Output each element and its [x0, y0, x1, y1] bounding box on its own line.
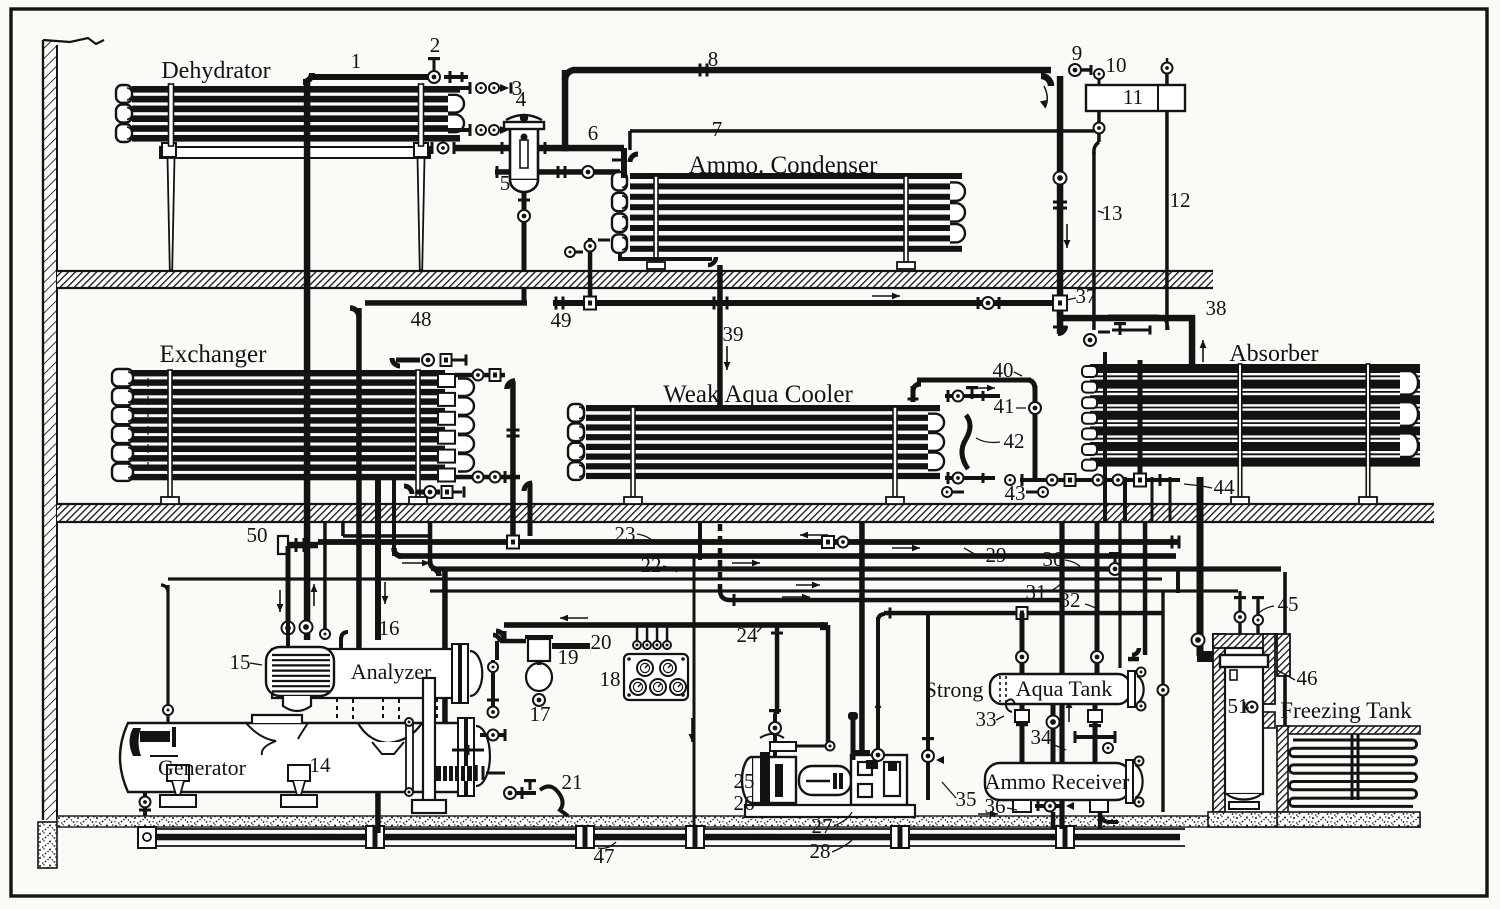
Exchanger right support: [416, 370, 420, 497]
leader 24: [757, 624, 765, 632]
leader 41: [1016, 407, 1026, 409]
svg-text:11: 11: [1123, 85, 1143, 109]
generator left neck: [252, 715, 302, 723]
valve 9: [1069, 64, 1081, 76]
pipe 40: [917, 378, 1031, 383]
ammo receiver right dome: [1126, 760, 1133, 803]
generator steam inlet left: [140, 731, 170, 742]
svg-text:22: 22: [641, 553, 662, 577]
pipe 32 run: [884, 611, 1164, 616]
svg-text:34: 34: [1031, 725, 1053, 749]
valve on downcomer: [1054, 172, 1067, 185]
analyzer shell: [272, 649, 455, 698]
arrow on 23 b: [892, 547, 920, 549]
strong aqua tank shell: [990, 674, 1130, 704]
flange joint on pipe 47 at x=375: [366, 826, 384, 848]
leader 28: [832, 840, 852, 852]
analyzer right feed x445: [442, 568, 448, 649]
analyzer support column: [423, 678, 435, 802]
svg-text:7: 7: [712, 117, 723, 141]
drum 15 down neck: [283, 696, 311, 711]
drop to analyzer x285: [282, 622, 295, 635]
thin drop x1163 freezing feed: [1161, 591, 1164, 812]
oil separator vessel (4,5): [510, 128, 538, 180]
union on downcomer: [1053, 201, 1067, 204]
tank 11: [1086, 85, 1185, 111]
gauge panel risers: [636, 625, 639, 650]
pipe 30 run: [434, 566, 1281, 571]
Dehydrator left support rod: [169, 84, 174, 146]
pipes near x497: [495, 641, 499, 660]
Absorber inner support: [1238, 364, 1242, 497]
leader 32: [1085, 604, 1101, 614]
svg-text:50: 50: [247, 523, 268, 547]
tank46 foundation: [1208, 812, 1277, 827]
pipe 38: [1063, 315, 1195, 322]
generator right rings: [458, 718, 465, 796]
strong aqua tank right dome: [1128, 671, 1135, 707]
arrow down left drop: [279, 590, 281, 612]
valve 35: [926, 745, 930, 800]
Exchanger bottom-right row: [455, 475, 520, 480]
absorber bottom fitting row: [1085, 478, 1180, 482]
arrow on 49: [872, 295, 900, 297]
Ammo Condenser left support: [654, 176, 658, 262]
Dehydrator left return bends: [116, 85, 132, 103]
ammo receiver shell: [985, 763, 1131, 800]
Dehydrator right leg: [418, 158, 425, 270]
pipe 12 valve: [1162, 63, 1173, 74]
pipe 13 jog: [1094, 142, 1099, 154]
Exchanger right row to downpipe: [455, 373, 505, 378]
pump vent stem: [851, 718, 856, 760]
valve 45b: [1256, 600, 1259, 638]
svg-text:9: 9: [1072, 41, 1083, 65]
valve 51: [1247, 702, 1258, 713]
pipe 48: [365, 300, 527, 306]
svg-text:15: 15: [230, 650, 251, 674]
pipe 29 run: [398, 553, 1176, 559]
svg-text:28: 28: [810, 839, 831, 863]
absorber top inlet cluster: [1084, 339, 1086, 341]
fitting row right of generator: [452, 749, 484, 752]
Absorber tube bank: [1090, 364, 1420, 373]
leader 15: [250, 663, 262, 665]
arrow on 23 a: [800, 534, 828, 536]
svg-text:26: 26: [734, 791, 755, 815]
Weak Aqua Cooler left support: [631, 407, 635, 497]
svg-text:51: 51: [1228, 694, 1249, 718]
thin spur at 536: [343, 534, 430, 538]
svg-text:12: 12: [1170, 188, 1191, 212]
svg-text:Ammo. Condenser: Ammo. Condenser: [689, 152, 879, 179]
pipe 37 junction: [1053, 296, 1067, 311]
svg-text:30: 30: [1043, 547, 1064, 571]
svg-text:20: 20: [591, 630, 612, 654]
pipe 13: [1092, 152, 1096, 330]
Dehydrator left leg: [168, 158, 175, 270]
svg-text:29: 29: [986, 543, 1007, 567]
svg-text:10: 10: [1106, 53, 1127, 77]
arrow up at 38 drop: [1202, 340, 1204, 362]
arrow down on 16 pipe: [384, 582, 386, 604]
cooler bottom fittings: [942, 487, 952, 497]
pipe 50 stub: [283, 542, 318, 549]
pipe 13 upper: [1097, 111, 1101, 142]
leader 30: [1065, 560, 1081, 568]
pipe 40 left drop: [911, 386, 916, 402]
arrow on 29: [402, 562, 430, 564]
generator drain valve: [143, 792, 147, 816]
analyzer steam drum 15: [266, 647, 334, 696]
flange joint on pipe 47 at x=900: [891, 826, 909, 848]
svg-text:31: 31: [1026, 580, 1047, 604]
pipe down to run: [392, 480, 396, 556]
arrow on 40: [971, 387, 995, 389]
coil feed drops: [1351, 734, 1354, 800]
Ammo Condenser tube bank: [630, 173, 962, 179]
arrow on pipe 47 mid: [752, 836, 780, 838]
arrow up on downcomer mid: [313, 584, 315, 606]
leader 44: [1184, 484, 1212, 488]
svg-text:18: 18: [600, 667, 621, 691]
svg-text:45: 45: [1278, 592, 1299, 616]
pipe 41 drop: [1033, 386, 1038, 480]
pipe 39 lower elbow: [720, 590, 730, 600]
drop to analyzer x306 valve: [300, 621, 313, 634]
pipe 32 tee: [1017, 607, 1028, 619]
dense verticals under absorber: [1103, 477, 1107, 522]
receiver bottom fittings: [1013, 800, 1031, 812]
Dehydrator tube bank: [132, 86, 460, 93]
arrow up on long drop: [1068, 700, 1070, 722]
Ammo Condenser left return bends: [612, 172, 627, 190]
generator gauge glass: [406, 724, 413, 790]
Absorber right return bends: [1400, 371, 1418, 395]
arrow on pipe 47 left: [312, 836, 340, 838]
svg-text:16: 16: [379, 616, 400, 640]
generator shell: [120, 723, 470, 792]
strong aqua tank hidden lines: [999, 676, 1001, 702]
hook 33: [1006, 699, 1015, 712]
arrow down under cooler: [691, 718, 693, 742]
pipe 49 tee at condenser drain: [584, 297, 596, 310]
valve 2: [428, 71, 440, 83]
pipe 38 connector down: [1057, 310, 1064, 334]
leader 37: [1066, 298, 1076, 300]
separator drain: [522, 192, 527, 270]
tank 11 inner line: [1157, 85, 1159, 111]
leader 29: [964, 548, 978, 556]
pipe 6 riser corner: [562, 145, 569, 152]
arrow 36 leader: [978, 813, 998, 815]
arrow on 29 right: [732, 562, 760, 564]
valves left of 21: [504, 787, 516, 799]
pipe 30 right elbow: [1176, 569, 1180, 593]
arrow up pump riser: [877, 700, 879, 722]
exchanger feed pipe from 48: [356, 308, 362, 522]
ammonia pump (25,26,27): [752, 757, 796, 803]
bottom foundation strip (speckled): [57, 816, 1420, 827]
arrow on 31: [796, 584, 820, 586]
main condenser downcomer: [1057, 76, 1064, 318]
Exchanger left support: [168, 370, 172, 497]
Dehydrator right support rod: [419, 84, 424, 146]
svg-text:37: 37: [1076, 284, 1097, 308]
svg-text:Dehydrator: Dehydrator: [161, 58, 270, 84]
second pump riser: [876, 617, 880, 752]
svg-text:41: 41: [994, 394, 1015, 418]
pipe 24 left elbow connect 19: [503, 640, 505, 642]
pump discharge fittings: [854, 750, 870, 754]
pipe 30 valve: [1109, 563, 1121, 575]
drop to analyzer x357: [356, 522, 362, 649]
tank 46 insulation left wall: [1213, 634, 1225, 812]
leader 23: [637, 534, 653, 542]
tank 46 insulation top band: [1213, 634, 1277, 648]
pipe 44 lower: [1197, 522, 1204, 656]
pipe 45 feed corner: [1238, 591, 1241, 602]
freezing tank top wall: [1277, 726, 1420, 734]
pipe 39 upper: [717, 288, 723, 405]
svg-text:14: 14: [310, 753, 332, 777]
condenser bottom drain manifold: [618, 257, 712, 261]
Weak Aqua Cooler right return bends: [928, 414, 944, 432]
pipe 8: [573, 67, 1051, 74]
svg-text:46: 46: [1297, 666, 1318, 690]
riser to valve 35: [926, 613, 930, 762]
svg-text:Exchanger: Exchanger: [160, 341, 268, 368]
arrow down on downcomer: [1066, 224, 1068, 248]
pipe 47 (main bottom header): [156, 834, 1180, 841]
elbow separator drain to pipe 48: [522, 297, 527, 303]
float trap 17: [526, 663, 552, 691]
pump steam valve cluster: [773, 714, 777, 757]
elbow to pipe 8: [565, 70, 575, 80]
svg-text:21: 21: [562, 770, 583, 794]
svg-text:25: 25: [734, 769, 755, 793]
svg-text:19: 19: [558, 645, 579, 669]
middle floor slab (hatched): [57, 504, 1434, 522]
purge drum 19: [528, 639, 550, 661]
leader 27: [834, 812, 852, 826]
pipe 45 feed run (thin): [430, 589, 1238, 592]
valve 34 small: [1103, 743, 1113, 753]
pipe 8 union: [699, 64, 702, 77]
pipes crossing absorber: [1138, 360, 1143, 478]
pipe 24 run: [504, 622, 824, 628]
svg-text:49: 49: [551, 308, 572, 332]
arrow on pipe 47 label leader: [598, 842, 616, 848]
Exchanger left return bends: [112, 369, 133, 386]
svg-text:13: 13: [1102, 201, 1123, 225]
tank drop right: [1093, 704, 1098, 763]
svg-text:35: 35: [956, 787, 977, 811]
svg-text:38: 38: [1206, 296, 1227, 320]
wall footing: [38, 822, 57, 868]
elbow into x445 from run: [431, 568, 439, 576]
svg-text:4: 4: [516, 87, 527, 111]
condenser inlet manifold: [621, 148, 627, 178]
Exchanger right fittings column: [438, 374, 455, 387]
leader 36: [1007, 808, 1017, 810]
Ammo Condenser right support: [904, 176, 908, 262]
tank46 inner gauge: [1230, 670, 1237, 680]
svg-text:17: 17: [530, 702, 551, 726]
dehydrator drain fittings to pipe 6: [431, 142, 434, 154]
svg-text:2: 2: [430, 33, 441, 57]
Exchanger tube bank: [130, 370, 445, 376]
svg-text:Strong: Strong: [925, 677, 984, 702]
curved flow arrow near 9: [1044, 86, 1047, 108]
svg-text:36: 36: [985, 794, 1006, 818]
generator right neck skirt: [358, 723, 422, 743]
pipe 23 tee at exchanger downpipe: [507, 536, 519, 549]
analyzer dashed internals: [337, 698, 353, 756]
leader 22: [663, 566, 677, 572]
tank 46 inner vessel: [1225, 648, 1263, 794]
pipe1 fittings right of valve 2: [449, 71, 452, 83]
leader 13: [1098, 211, 1104, 213]
analyzer top elbow x341: [341, 632, 348, 640]
pipe x378 below generator: [375, 792, 381, 833]
svg-text:Absorber: Absorber: [1229, 341, 1318, 367]
analyzer right rings: [452, 644, 459, 703]
dehydrator outlet row A: [448, 86, 470, 90]
pipe 38 drop to absorber: [1189, 315, 1196, 364]
svg-text:39: 39: [723, 322, 744, 346]
svg-text:Generator: Generator: [158, 755, 247, 780]
pipe 31 left elbow: [161, 585, 168, 592]
Exchanger hidden tube lines: [147, 372, 149, 480]
bottom pipe trench rails: [140, 828, 1185, 830]
tank drop 34 middle: [1051, 704, 1056, 763]
pipe 49: [553, 300, 1052, 306]
valve 10: [1094, 69, 1104, 79]
Exchanger second downpipe: [528, 483, 533, 536]
long drop to bottom rail: [1059, 522, 1064, 829]
svg-text:48: 48: [411, 307, 432, 331]
svg-text:40: 40: [993, 358, 1014, 382]
freezing tank brine coil: [1293, 739, 1413, 742]
pipe 44 upper: [1197, 477, 1204, 522]
generator pedestal 2: [288, 765, 310, 781]
analyzer-generator connector: [442, 698, 448, 723]
dehydrator outlet row B: [448, 128, 470, 132]
Weak Aqua Cooler left return bends: [568, 404, 584, 422]
generator internals left: [130, 728, 142, 756]
separator drain below floor: [522, 288, 527, 300]
flange joint on pipe 47 at x=585: [576, 826, 594, 848]
pipe 7: [630, 129, 1094, 133]
condenser feed line: [495, 169, 620, 175]
svg-text:Freezing Tank: Freezing Tank: [1280, 698, 1412, 723]
svg-text:5: 5: [500, 171, 511, 195]
gauge panel 18: [624, 654, 688, 700]
main riser elbow at pipe 8 end: [1041, 76, 1051, 86]
leader 31: [1048, 582, 1062, 592]
svg-text:6: 6: [588, 121, 599, 145]
upper floor slab (hatched): [57, 271, 1213, 288]
svg-text:23: 23: [615, 522, 636, 546]
pipe 23 right end union: [1171, 536, 1174, 549]
arrow down pipe 39: [726, 346, 728, 370]
leader 42: [976, 438, 1000, 443]
svg-text:42: 42: [1004, 429, 1025, 453]
pipe 24 right corner: [820, 622, 828, 630]
Absorber left fittings column: [1082, 366, 1097, 377]
Exchanger right downpipe: [510, 381, 516, 543]
pipe 20: [552, 643, 590, 649]
arrow on 24: [560, 617, 588, 619]
leader 35: [942, 782, 956, 798]
svg-text:Weak Aqua Cooler: Weak Aqua Cooler: [663, 381, 853, 408]
Exchanger right return bends: [458, 379, 474, 396]
drop to aqua tank left: [1020, 613, 1025, 674]
cooler right outlet top: [945, 394, 1000, 398]
svg-text:1: 1: [351, 49, 362, 73]
valve on condenser feed: [582, 166, 594, 178]
pipe x307 section into analyzer hidden: [306, 698, 308, 723]
tank drop 33: [1020, 704, 1025, 763]
flange joint on pipe 47 at x=1065: [1056, 826, 1074, 848]
svg-text:27: 27: [812, 814, 833, 838]
Dehydrator frame rail: [160, 147, 430, 158]
Exchanger bottom valve row: [404, 486, 412, 494]
thin drop to tank right end: [1118, 522, 1121, 668]
pipe 6 through separator: [455, 145, 624, 152]
svg-text:43: 43: [1005, 481, 1026, 505]
pipe 7 riser: [628, 131, 632, 150]
pipe 23 valve mid: [822, 536, 834, 548]
wiggly pipe 42: [962, 415, 970, 469]
Weak Aqua Cooler tube bank: [586, 405, 940, 411]
separator inlet flanges: [501, 142, 504, 154]
svg-text:24: 24: [737, 623, 759, 647]
pipe 49 valve: [982, 297, 994, 309]
pipe 1: [312, 74, 430, 80]
leader 46: [1277, 670, 1295, 680]
flange joint on pipe 47 at x=695: [686, 826, 704, 848]
svg-text:Analyzer: Analyzer: [351, 659, 432, 684]
Exchanger top-right valve row: [392, 358, 400, 366]
svg-text:47: 47: [594, 844, 615, 868]
svg-text:44: 44: [1214, 475, 1236, 499]
verticals under cooler: [698, 522, 702, 560]
leader 45: [1256, 606, 1274, 616]
leader 33: [996, 716, 1004, 720]
Absorber right support: [1366, 364, 1370, 497]
svg-text:Ammo Receiver: Ammo Receiver: [985, 769, 1130, 794]
pipe 23 run: [318, 539, 1178, 545]
vertical to pump: [859, 522, 865, 752]
generator steam heater right: [436, 766, 472, 781]
left wall (hatched masonry): [43, 40, 57, 820]
pipe 8 riser: [562, 70, 569, 151]
svg-text:Aqua Tank: Aqua Tank: [1016, 676, 1112, 701]
analyzer feed pipe 16-line: [375, 477, 381, 640]
long downcomer pipe from pipe 1 to analyzer: [304, 82, 311, 640]
squiggle 21: [540, 786, 568, 816]
weak aqua run y600: [730, 598, 1062, 603]
analyzer left small fittings: [487, 699, 499, 702]
svg-text:33: 33: [976, 707, 997, 731]
svg-text:32: 32: [1060, 588, 1081, 612]
cooler right outlet bottom: [945, 476, 995, 480]
pipe 31 run (thin): [168, 577, 1162, 580]
pipe 49 union at 39: [713, 297, 716, 310]
leader 40: [1014, 372, 1022, 376]
